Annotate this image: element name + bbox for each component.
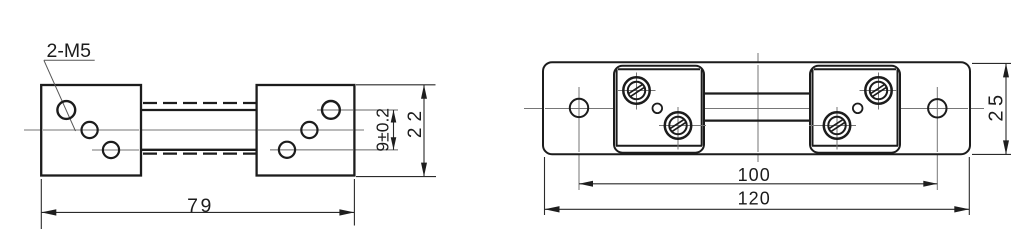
svg-text:25: 25 [986,90,1008,121]
svg-text:22: 22 [405,105,426,138]
svg-text:79: 79 [187,195,214,217]
svg-text:9±0.2: 9±0.2 [373,108,393,152]
svg-text:2-M5: 2-M5 [47,40,92,62]
svg-text:100: 100 [738,165,771,185]
svg-text:120: 120 [738,189,771,209]
